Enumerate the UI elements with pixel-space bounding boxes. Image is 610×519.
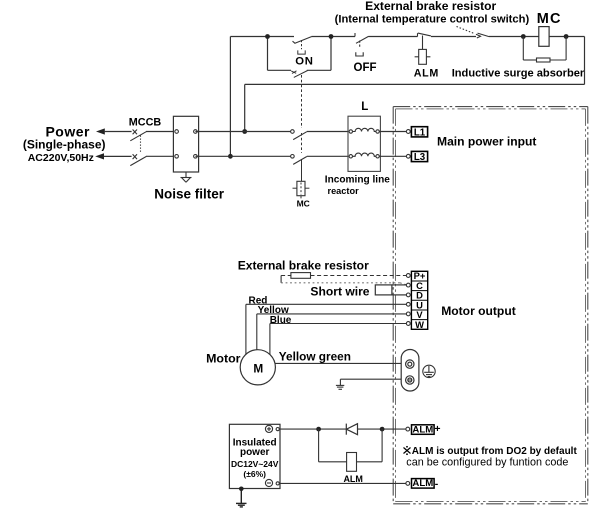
svg-text:Motor output: Motor output [441,304,516,318]
svg-text:L1: L1 [414,127,426,138]
svg-text:(Internal temperature control: (Internal temperature control switch) [335,14,530,26]
svg-text:M: M [253,361,263,375]
svg-text:Inductive surge absorber: Inductive surge absorber [452,67,585,79]
svg-text:Incoming line: Incoming line [325,175,390,186]
svg-text:ALM: ALM [412,424,433,435]
svg-text:(±6%): (±6%) [243,469,266,479]
svg-text:Main power input: Main power input [437,134,536,148]
svg-text:+: + [434,423,440,435]
svg-text:L3: L3 [414,152,426,163]
svg-text:Noise filter: Noise filter [154,186,225,201]
svg-text:ON: ON [295,56,314,68]
svg-text:W: W [415,319,424,330]
svg-text:ALM: ALM [414,67,439,79]
svg-text:DC12V~24V: DC12V~24V [231,459,279,469]
svg-text:OFF: OFF [354,62,377,74]
svg-text:External brake resistor: External brake resistor [365,0,496,13]
svg-text:Motor: Motor [206,352,241,366]
svg-text:AC220V,50Hz: AC220V,50Hz [28,152,94,164]
svg-text:Short wire: Short wire [310,284,369,298]
svg-text:MC: MC [537,11,562,27]
svg-text:ALM: ALM [412,478,433,489]
svg-text:power: power [240,447,270,458]
svg-text:(Single-phase): (Single-phase) [23,137,106,151]
svg-text:Yellow green: Yellow green [279,349,351,363]
svg-text:Blue: Blue [270,315,292,326]
svg-text:reactor: reactor [328,186,360,196]
svg-text:L: L [361,101,368,113]
svg-text:-: - [435,478,439,490]
svg-text:can be configured by funtion c: can be configured by funtion code [406,456,568,468]
svg-text:External brake resistor: External brake resistor [238,259,369,273]
svg-text:ALM: ALM [343,474,363,484]
svg-text:MCCB: MCCB [129,116,162,128]
svg-text:MC: MC [297,198,310,208]
